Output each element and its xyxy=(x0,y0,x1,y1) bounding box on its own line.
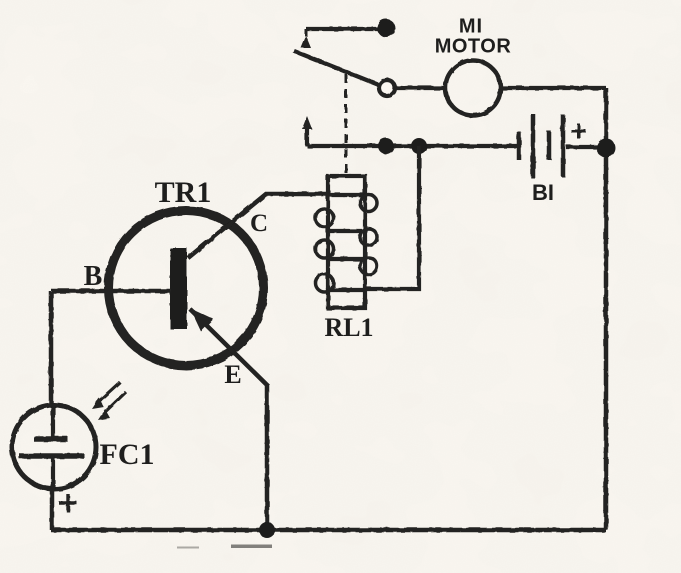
svg-text:RL1: RL1 xyxy=(324,313,373,342)
relay rung 4 xyxy=(328,288,365,292)
svg-text:B: B xyxy=(84,261,103,292)
wire: relay bottom to row2 riser xyxy=(365,146,419,289)
relay right loop 2 xyxy=(360,229,377,246)
wire: bottom rail xyxy=(51,528,606,533)
transistor TR1 circle xyxy=(109,211,264,366)
relay rung 2 xyxy=(328,229,365,233)
lower contact arrow xyxy=(305,128,309,146)
battery B1 plates xyxy=(519,114,563,178)
wire: collector diagonal and to relay xyxy=(188,194,330,258)
relay right loop 1 xyxy=(360,195,377,212)
switch pole open circle xyxy=(379,80,395,96)
photocell FC1 circle xyxy=(12,405,96,489)
relay left loop 1 xyxy=(316,209,334,227)
svg-text:BI: BI xyxy=(532,180,554,205)
light arrow 2 xyxy=(98,392,126,420)
svg-text:TR1: TR1 xyxy=(155,176,212,209)
relay left loop 2 xyxy=(316,240,334,258)
node: bottom rail junction dot xyxy=(259,522,275,538)
relay RL1 coil body xyxy=(328,176,365,308)
relay left loop 3 xyxy=(316,274,334,292)
svg-text:E: E xyxy=(224,360,241,389)
wire: base B wire xyxy=(51,289,171,294)
transistor base bar xyxy=(170,248,187,329)
wire: second row horizontal to battery xyxy=(307,144,517,148)
photocell top stub xyxy=(51,406,55,438)
wire: switch to motor xyxy=(396,86,447,90)
photocell short plate xyxy=(34,436,68,442)
emitter arrowhead (PNP, pointing to base) xyxy=(190,308,214,332)
switch arm (movable contact) xyxy=(294,51,379,85)
relay right loop 3 xyxy=(360,258,377,275)
svg-text:MOTOR: MOTOR xyxy=(435,36,512,58)
wire: battery to right rail xyxy=(566,145,600,149)
upper contact arrow xyxy=(301,36,311,48)
node: junction dot right xyxy=(411,138,427,154)
dashed mechanical link relay to switch xyxy=(345,74,348,176)
wire: emitter diagonal down to bottom rail xyxy=(190,309,267,530)
light arrow 1 xyxy=(92,382,120,409)
battery plus sign xyxy=(571,124,586,139)
node: junction dot left xyxy=(378,138,394,154)
photocell plus sign xyxy=(59,494,77,512)
photocell bottom stub xyxy=(51,456,55,489)
svg-text:MI: MI xyxy=(459,16,483,38)
relay rung 1 xyxy=(328,193,365,197)
wire: left rail down to photocell xyxy=(49,291,54,406)
relay rung 3 xyxy=(328,257,365,261)
scan smudge bottom xyxy=(231,545,272,549)
node: upper contact dot xyxy=(377,19,395,37)
scan smudge bottom 2 xyxy=(177,547,199,549)
motor M1 circle xyxy=(446,61,501,116)
node: right rail junction dot xyxy=(597,139,616,158)
wire: motor to right rail xyxy=(500,86,606,90)
svg-text:FC1: FC1 xyxy=(100,438,155,471)
svg-text:C: C xyxy=(250,210,268,237)
wire: photocell to bottom rail xyxy=(50,489,55,530)
wire: right rail vertical xyxy=(604,88,609,530)
photocell long plate xyxy=(19,453,84,459)
switch S (relay contact) fixed upper contact wire xyxy=(306,27,385,31)
